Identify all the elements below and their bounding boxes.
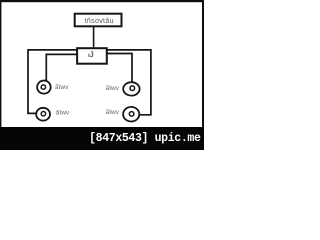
svg-text:ãîwv: ãîwv: [106, 85, 120, 92]
wire player to amp: [93, 27, 95, 49]
speaker SP1 (left top): [37, 81, 51, 94]
block amplifier: [77, 48, 107, 64]
wire amp right outer (to speaker SP4): [107, 50, 150, 115]
svg-text:[847x543] upic.me: [847x543] upic.me: [89, 132, 201, 145]
svg-text:ãîwv: ãîwv: [106, 109, 120, 116]
caption bar: [0, 127, 204, 150]
svg-text:tñsovtãu: tñsovtãu: [85, 18, 114, 25]
block player (เครื่องเล่น): [75, 14, 122, 27]
wire amp left inner (to speaker SP1): [46, 54, 76, 81]
svg-text:ãîwv: ãîwv: [56, 109, 70, 116]
speaker SP2 (left bottom): [36, 108, 50, 121]
speaker SP3 (right top): [123, 82, 139, 95]
svg-text:ãîwv: ãîwv: [55, 84, 69, 91]
wire amp left outer (to speaker SP2): [28, 50, 77, 114]
svg-text:ıĴ: ıĴ: [88, 50, 94, 59]
speaker SP4 (right bottom): [123, 107, 139, 122]
wire amp right inner (to speaker SP3): [107, 54, 132, 83]
